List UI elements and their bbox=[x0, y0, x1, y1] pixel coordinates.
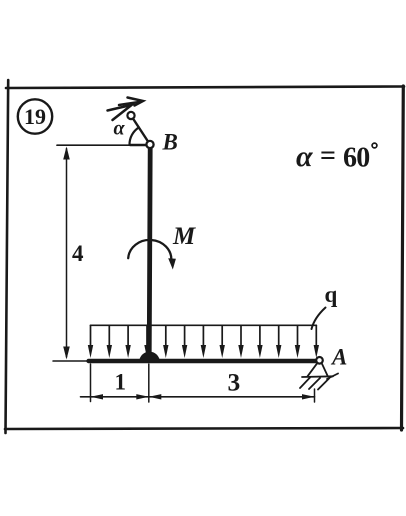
svg-text:A: A bbox=[330, 345, 347, 370]
leader line from q to load bbox=[312, 308, 326, 330]
support A triangle bbox=[308, 363, 328, 377]
dimension 4 bottom arrowhead bbox=[63, 347, 70, 360]
svg-text:M: M bbox=[172, 223, 196, 250]
support A pin bbox=[316, 357, 323, 364]
dimension 4 vertical line bbox=[66, 149, 68, 358]
distributed load top line bbox=[91, 324, 317, 326]
wall hatching of upper support bbox=[108, 98, 144, 121]
pin at B bbox=[146, 141, 153, 148]
moment arrowhead bbox=[168, 258, 176, 269]
dim arrow left outward bbox=[91, 394, 104, 399]
svg-text:α: α bbox=[114, 118, 126, 140]
moment M arc bbox=[128, 240, 171, 261]
fixed joint half disc bbox=[139, 352, 160, 362]
vertical member bbox=[149, 148, 150, 360]
degree mark bbox=[372, 143, 377, 148]
horizontal reference line at B level bbox=[57, 144, 131, 146]
svg-text:1: 1 bbox=[115, 370, 127, 395]
distributed load arrows bbox=[91, 325, 317, 349]
link rod from wall pin to B bbox=[131, 116, 150, 145]
dim arrow right outward bbox=[302, 394, 315, 399]
border frame bottom bbox=[5, 428, 403, 429]
svg-text:60: 60 bbox=[343, 143, 369, 174]
svg-text:4: 4 bbox=[72, 241, 84, 266]
extension line right (under A) bbox=[314, 389, 316, 402]
extension line left (under load left edge) bbox=[90, 364, 92, 402]
border frame right bbox=[402, 86, 404, 430]
svg-text:19: 19 bbox=[24, 104, 46, 129]
svg-text:=: = bbox=[320, 141, 336, 172]
svg-text:α: α bbox=[296, 140, 313, 173]
distributed load arrowheads bbox=[88, 345, 319, 358]
border frame top bbox=[6, 87, 404, 89]
svg-text:3: 3 bbox=[228, 368, 241, 397]
alpha = 60 deg text bbox=[296, 140, 369, 174]
bottom dimension line bbox=[81, 396, 315, 398]
beam bbox=[89, 359, 319, 363]
border frame left bbox=[6, 80, 9, 433]
extension line middle (under column) bbox=[148, 364, 150, 402]
problem number circle 19 bbox=[18, 99, 52, 133]
dimension 4 top arrowhead bbox=[63, 147, 70, 160]
svg-text:B: B bbox=[162, 130, 178, 155]
support A ground line bbox=[302, 375, 333, 378]
thin line left of beam bbox=[53, 360, 90, 362]
support A hatching bbox=[300, 374, 338, 390]
dim arrow middle-left bbox=[136, 394, 149, 399]
svg-text:q: q bbox=[325, 282, 338, 307]
angle arc alpha at B bbox=[129, 127, 138, 144]
pin at wall bbox=[127, 112, 134, 119]
dim arrow middle-right bbox=[149, 394, 162, 399]
